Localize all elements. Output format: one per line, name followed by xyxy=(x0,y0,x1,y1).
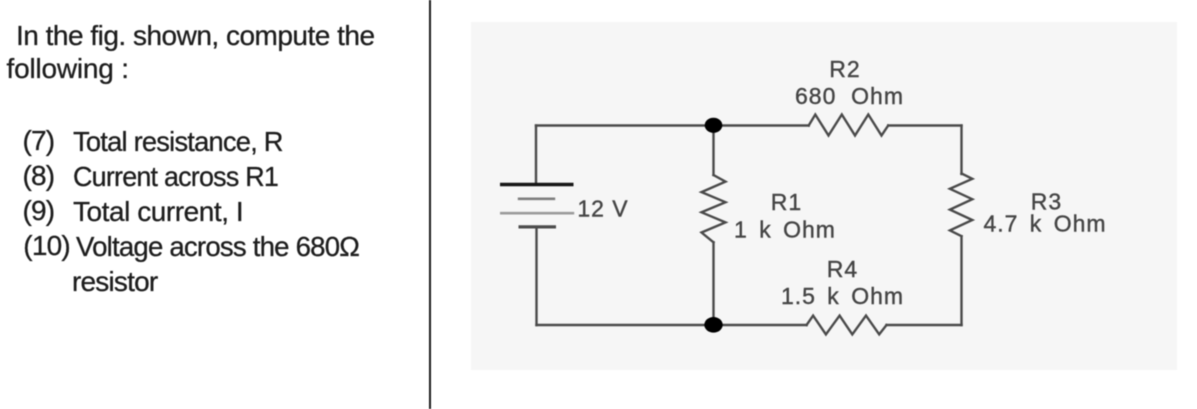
node junction dot bottom xyxy=(704,317,722,333)
wire middle upper: node to R1 xyxy=(712,126,714,176)
svg-text:R2: R2 xyxy=(829,56,860,82)
wire bottom right: corner to R4 xyxy=(887,324,962,326)
vertical divider rule xyxy=(429,0,431,409)
battery V1 plate long gray xyxy=(500,212,574,215)
svg-text:4.7 k Ohm: 4.7 k Ohm xyxy=(983,211,1106,237)
wire left upper: battery top xyxy=(535,126,537,184)
wire right lower xyxy=(960,236,962,325)
svg-text:680 Ohm: 680 Ohm xyxy=(795,83,904,109)
resistor R4 xyxy=(807,316,887,335)
circuit background panel xyxy=(471,22,1177,370)
svg-text:1.5 k Ohm: 1.5 k Ohm xyxy=(781,283,904,309)
wire top left: battery top to node xyxy=(536,124,714,126)
question text block xyxy=(16,22,375,50)
battery V1 plate long top xyxy=(500,183,574,186)
node junction dot top xyxy=(705,118,723,133)
wire top: node to R2 xyxy=(714,124,809,126)
battery V1 plate short bottom xyxy=(519,225,557,228)
resistor R3 xyxy=(950,174,972,237)
wire middle lower: R1 to bottom node xyxy=(712,242,714,325)
wire bottom left: node to battery xyxy=(537,324,714,326)
wire right upper xyxy=(960,126,962,175)
wire bottom: R4 to node xyxy=(714,324,807,326)
wire top right: R2 to right corner xyxy=(888,124,961,126)
svg-text:R4: R4 xyxy=(827,256,858,282)
resistor R2 xyxy=(809,115,889,136)
resistor R1 xyxy=(702,175,726,242)
wire left lower: battery bottom xyxy=(535,228,537,325)
battery V1 plate short gray xyxy=(518,198,555,201)
svg-text:R1: R1 xyxy=(771,189,802,215)
svg-text:1 k Ohm: 1 k Ohm xyxy=(734,217,836,243)
svg-text:12 V: 12 V xyxy=(577,196,628,222)
